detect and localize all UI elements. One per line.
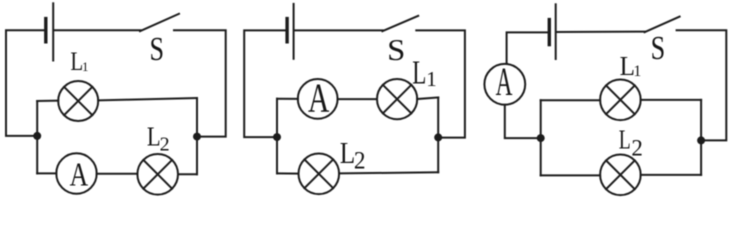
battery G2 short thick plate (negative) [285,19,288,42]
junction dot: C2 right node [434,133,442,141]
wire: C2 right branch vertical [437,98,439,173]
wire: C2 lamp L2 to right branch vertical [339,172,438,173]
ammeter A (C1) [56,153,96,193]
wire: C3 bottom branch, left corner to lamp L2 [541,174,600,176]
lamp L1 (C2) [377,79,417,119]
wire: C1 right branch vertical [196,98,198,174]
wire: C2 switch fixed contact to right rail down to right junction stub [416,30,465,137]
battery G3 short thick plate (negative) [548,20,551,45]
wire: C3 ammeter bottom down and right to left junction [505,105,537,138]
wire: C3 lamp L1 to right branch vertical [641,99,701,101]
battery G1 long thin plate (positive) [52,3,54,60]
svg-text:L: L [619,124,631,154]
junction dot: C3 left node [537,134,545,142]
junction dot: C3 right node [697,136,705,144]
svg-text:1: 1 [82,59,89,74]
wire: C2 bottom branch, left corner to lamp L2 [277,172,299,174]
label L1 (C2) [412,55,437,92]
ammeter A (C2) [298,75,338,121]
wire: C3 battery positive to switch pivot [557,31,645,33]
label L2 (C3) [619,124,643,160]
junction dot: C1 right node [193,133,201,141]
label L1 (C1) [70,47,88,76]
label L2 (C2) [340,135,366,174]
wire: C1 top-left from battery negative plate, down left rail to left junction stub [6,30,44,136]
wire: C1 top branch left segment to lamp L1 [37,100,58,102]
svg-text:1: 1 [426,67,437,91]
label L2 (C1) [147,121,170,155]
label L1 (C3) [620,51,642,81]
wire: C1 lamp L2 to right branch vertical [178,173,197,175]
wire: C1 bottom branch left segment to ammeter [37,172,56,174]
wire: C1 top branch right segment from lamp L1 [98,98,197,100]
ammeter A (C3, in main line) [484,60,525,105]
wire: C2 top-left from battery negative plate, down left rail to left junction stub [244,30,285,137]
wire: C1 ammeter to lamp L2 [97,173,138,175]
wire: C3 left branch vertical [540,100,542,175]
lamp L2 (C3) [600,155,641,196]
svg-text:S: S [651,30,666,67]
svg-text:S: S [387,32,405,67]
svg-text:2: 2 [160,134,170,156]
lamp L2 (C1) [137,154,178,195]
junction dot: C2 left node [273,133,281,141]
lamp L2 (C2) [299,154,340,195]
wire: C2 battery positive to switch pivot [295,29,383,31]
switch S blade (open) C1 [140,14,179,31]
switch S blade (open) C3 [645,17,680,33]
svg-text:A: A [70,156,89,193]
wire: C3 top-left from battery negative plate, down to ammeter top [507,32,548,64]
lamp L1 (C3) [600,80,641,121]
svg-text:1: 1 [633,63,641,80]
wire: C2 left branch vertical [276,99,278,174]
wire: C2 lamp L1 to right branch vertical [417,98,438,100]
svg-text:A: A [496,60,513,104]
wire: C3 right branch vertical [700,100,702,175]
junction dot: C1 left node [33,132,41,140]
wire: C3 top branch, left corner to lamp L1 [541,99,600,101]
wire: C1 switch fixed contact to right rail down to right junction stub [174,30,226,136]
svg-text:L: L [412,55,426,92]
wire: C1 battery positive to switch pivot [54,29,140,31]
wire: C3 switch fixed contact to right rail down to right junction stub [677,30,727,140]
battery G2 long thin plate (positive) [293,4,295,59]
wire: C2 top branch, left corner to ammeter [277,98,298,100]
svg-text:2: 2 [631,136,642,161]
battery G3 long thin plate (positive) [555,4,557,59]
svg-text:S: S [150,31,165,68]
svg-text:A: A [308,75,330,121]
wire: C3 lamp L2 to right branch vertical [641,174,701,176]
svg-text:2: 2 [354,148,366,175]
battery G1 short thick plate (negative) [44,19,47,42]
wire: C1 left branch vertical (joins top and bottom branches) [36,101,38,173]
wire: C2 ammeter to lamp L1 [338,98,377,100]
switch S blade (open) C2 [382,16,418,31]
lamp L1 (circle with cross) [58,81,98,121]
